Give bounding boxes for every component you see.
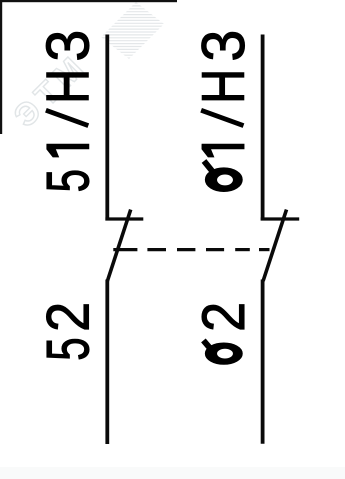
wire lower terminal 52 bbox=[105, 280, 109, 445]
actuator tick pole 1 bbox=[113, 248, 137, 251]
wire lower terminal 62 bbox=[261, 280, 265, 444]
label 62 bbox=[190, 302, 257, 364]
svg-text:2: 2 bbox=[35, 302, 102, 332]
moving contact lever (diagonal) bbox=[263, 210, 286, 281]
watermark bottom band bbox=[0, 467, 345, 479]
svg-text:5: 5 bbox=[34, 169, 101, 192]
fixed contact bar 61 bbox=[261, 217, 300, 220]
svg-text:Н: Н bbox=[34, 69, 102, 104]
contact NC pole 1 (51/Н3 - 52) bbox=[105, 35, 143, 445]
fixed contact bar 51 bbox=[105, 217, 143, 220]
svg-text:2: 2 bbox=[190, 302, 257, 332]
border frame top-left (crop edge) bbox=[0, 0, 177, 2]
svg-text:3: 3 bbox=[36, 30, 102, 62]
mechanical link dashed line bbox=[147, 248, 249, 251]
svg-text:5: 5 bbox=[34, 337, 101, 360]
label 61/Н3 bbox=[189, 30, 257, 192]
wire upper terminal 61 bbox=[261, 35, 265, 221]
label 51/Н3 bbox=[34, 30, 102, 193]
moving contact lever (diagonal) bbox=[107, 210, 130, 281]
actuator tick pole 2 bbox=[259, 248, 270, 251]
svg-text:3: 3 bbox=[191, 30, 257, 62]
label 52 bbox=[34, 302, 102, 361]
wire upper terminal 51 bbox=[105, 35, 109, 221]
svg-text:Н: Н bbox=[189, 69, 257, 104]
contact NC pole 2 (61/Н3 - 62) bbox=[259, 35, 299, 444]
